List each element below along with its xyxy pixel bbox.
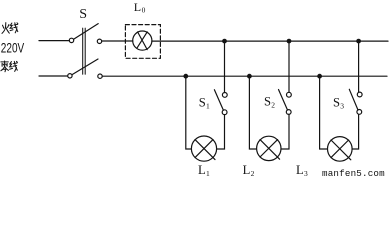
svg-text:S: S bbox=[333, 96, 340, 110]
svg-text:2: 2 bbox=[271, 100, 275, 109]
switch S1 bbox=[222, 110, 227, 115]
label L0 bbox=[134, 0, 146, 15]
label L2 bbox=[243, 163, 255, 178]
svg-text:L: L bbox=[296, 163, 304, 177]
svg-text:0: 0 bbox=[142, 6, 146, 15]
junction dot: live / branch 3 bbox=[356, 39, 361, 44]
label S2 bbox=[264, 94, 275, 109]
label L1 bbox=[198, 163, 210, 178]
svg-text:2: 2 bbox=[251, 169, 255, 177]
wire: lamp 2 to switch S2 bbox=[281, 114, 289, 149]
switch S top pole lever bbox=[74, 24, 99, 40]
wire: neutral distribution line bbox=[102, 75, 387, 77]
switch S top pole right terminal bbox=[97, 39, 101, 43]
wire: branch 2 neutral drop bbox=[249, 76, 256, 149]
svg-text:1: 1 bbox=[206, 101, 210, 110]
wire: live distribution line bbox=[152, 40, 388, 42]
wire: switch S1 to live bbox=[224, 41, 226, 92]
svg-text:1: 1 bbox=[206, 169, 210, 177]
junction dot: live / branch 1 bbox=[222, 39, 227, 44]
label 零线 (neutral wire) bbox=[1, 61, 18, 72]
wire: switch S2 to live bbox=[288, 41, 290, 92]
junction dot: neutral / lamp 1 bbox=[183, 74, 188, 79]
junction dot: neutral / lamp 3 bbox=[317, 74, 322, 79]
svg-text:L: L bbox=[198, 163, 206, 177]
svg-text:S: S bbox=[199, 95, 206, 109]
svg-text:3: 3 bbox=[340, 102, 344, 111]
label S1 bbox=[199, 95, 210, 110]
switch S bottom pole right terminal bbox=[98, 74, 102, 78]
label L3 bbox=[296, 163, 308, 178]
svg-text:manfen5.com: manfen5.com bbox=[322, 168, 385, 177]
wire: lamp 3 to switch S3 bbox=[352, 114, 358, 149]
svg-text:S: S bbox=[264, 94, 271, 108]
switch S bottom pole left terminal bbox=[68, 74, 72, 78]
switch S3 bbox=[357, 110, 362, 115]
dashed box around L0 bbox=[125, 25, 160, 59]
lamp L1 bbox=[191, 136, 216, 161]
svg-text:L: L bbox=[243, 163, 251, 177]
svg-text:L: L bbox=[134, 0, 141, 14]
label 火线 (live wire) bbox=[2, 23, 18, 34]
junction dot: live / branch 2 bbox=[287, 39, 292, 44]
label S3 bbox=[333, 96, 344, 111]
svg-text:3: 3 bbox=[304, 169, 308, 177]
svg-text:220V: 220V bbox=[1, 41, 24, 56]
switch S bottom pole lever bbox=[72, 59, 98, 75]
junction dot: neutral / lamp 2 bbox=[247, 74, 252, 79]
wire: live feed from source bbox=[39, 40, 69, 42]
wire: neutral feed from source bbox=[39, 75, 68, 77]
lamp L3 bbox=[328, 137, 353, 162]
wire: live from switch S to lamp L0 bbox=[102, 40, 133, 42]
switch S2 bbox=[286, 110, 291, 115]
switch S top pole left terminal bbox=[69, 38, 73, 42]
lamp L0 bbox=[133, 31, 152, 50]
wire: switch S3 to live bbox=[358, 41, 360, 92]
lamp L2 bbox=[257, 136, 281, 160]
wire: lamp 1 to switch S1 bbox=[217, 115, 225, 149]
switch S gang linkage (double bar) bbox=[83, 28, 86, 74]
wire: branch 3 neutral drop bbox=[320, 76, 328, 149]
svg-text:S: S bbox=[79, 7, 87, 22]
wire: branch 1 neutral drop bbox=[186, 76, 192, 149]
